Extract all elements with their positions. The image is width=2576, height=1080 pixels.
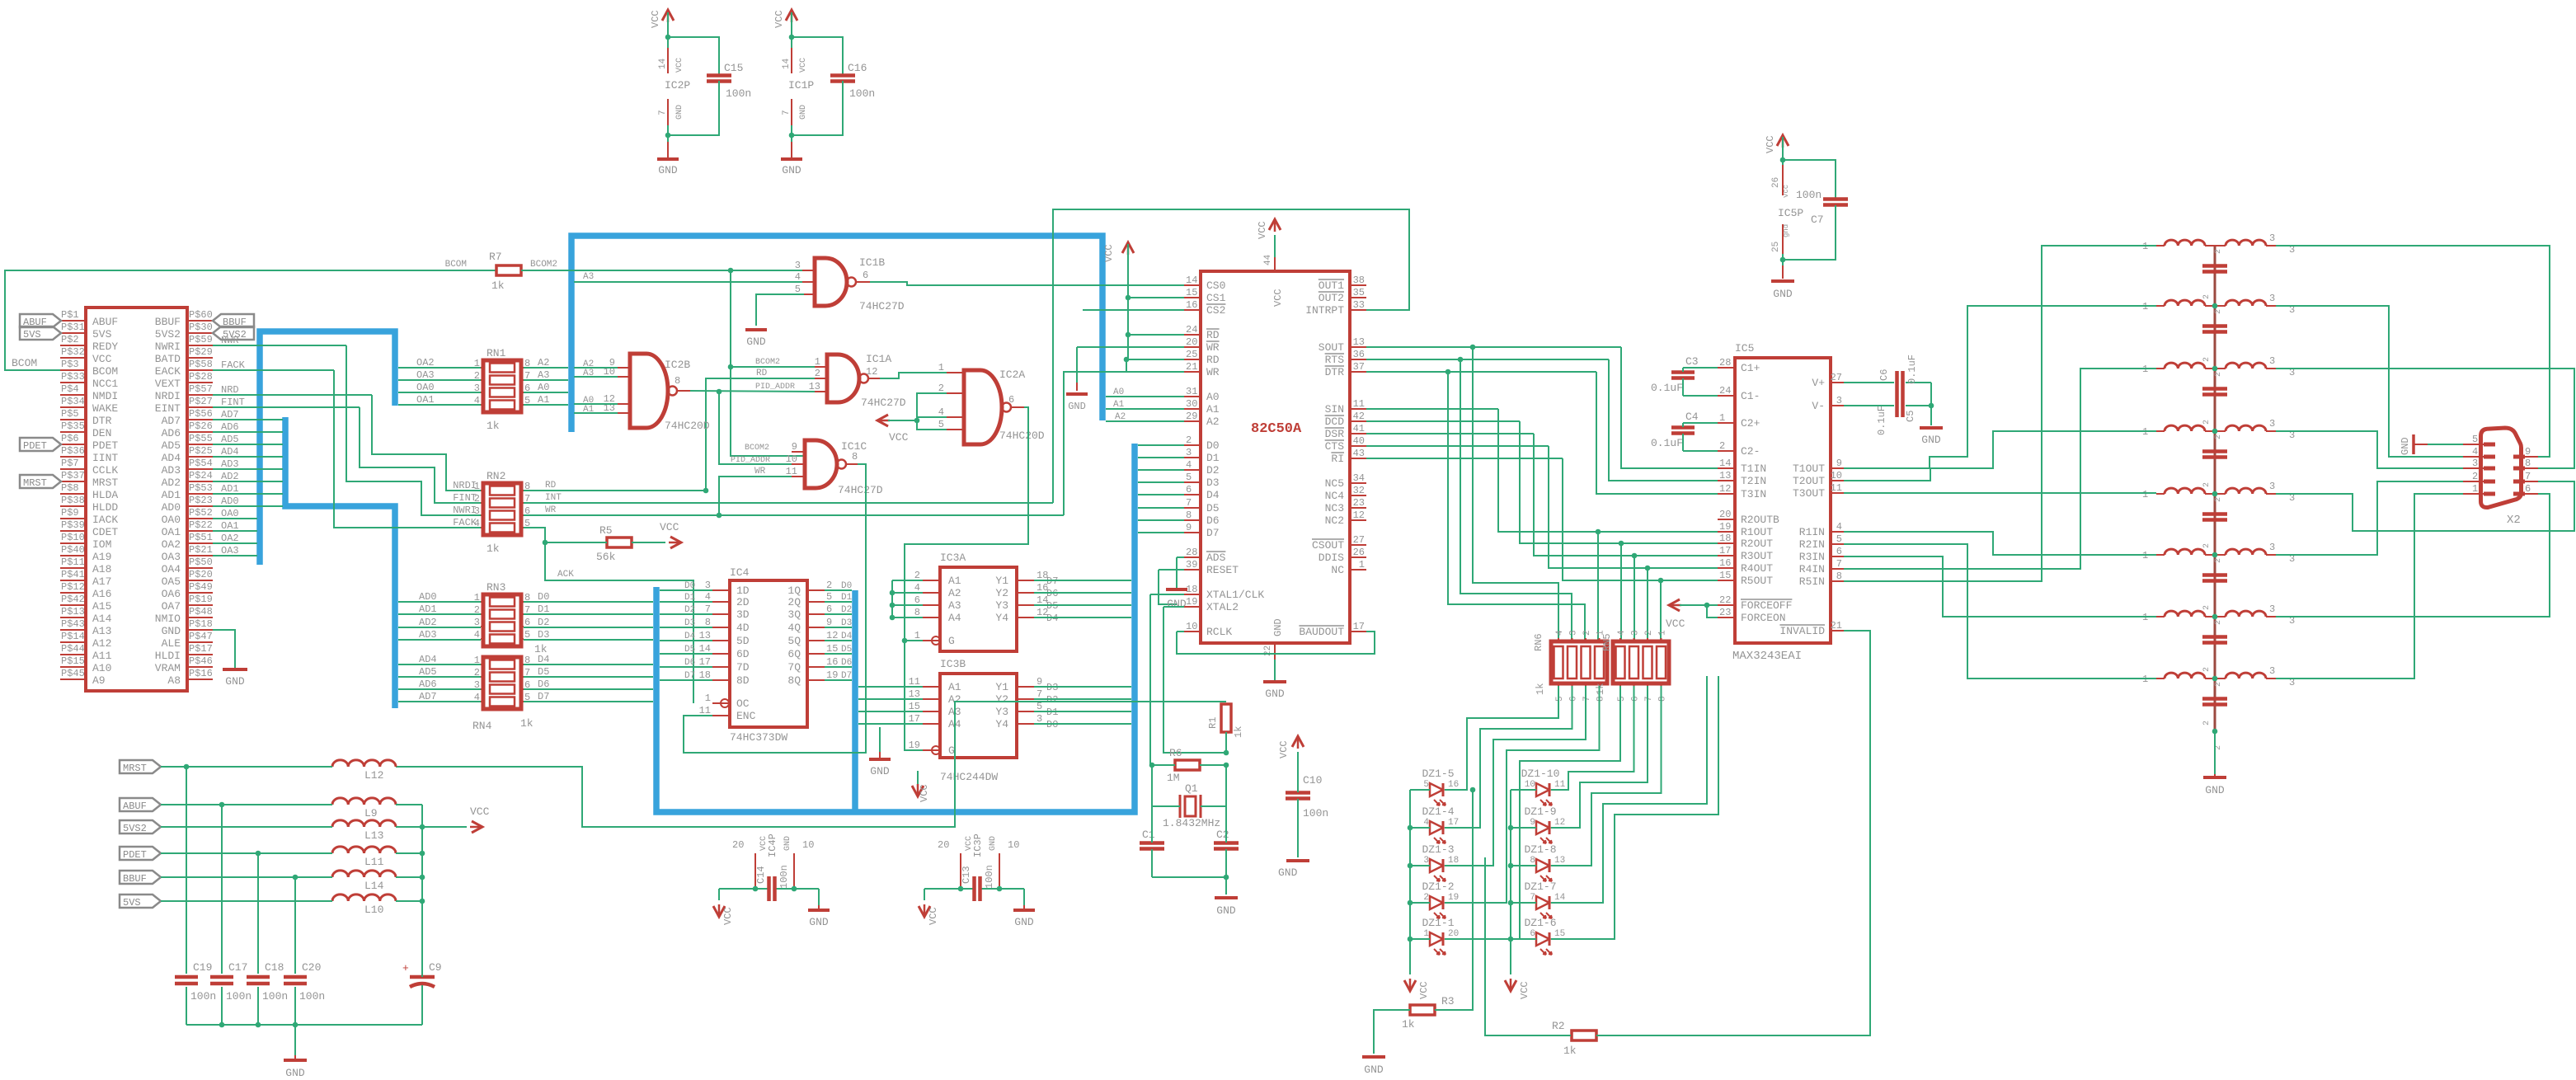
wire row5 to T3OUT xyxy=(1844,492,2156,494)
svg-text:EACK: EACK xyxy=(155,365,181,378)
svg-text:BCOM: BCOM xyxy=(92,365,118,378)
svg-text:DZ1-8: DZ1-8 xyxy=(1524,843,1556,856)
svg-text:17: 17 xyxy=(1448,818,1459,828)
wire IC3A Y2 to bus xyxy=(1034,592,1131,594)
wire/net OA0 xyxy=(213,518,257,519)
vcc arrow (IC3 area) xyxy=(912,786,924,796)
svg-text:8: 8 xyxy=(914,607,920,618)
svg-text:VCC: VCC xyxy=(1103,244,1115,262)
svg-text:Y2: Y2 xyxy=(995,587,1008,599)
svg-text:AD4: AD4 xyxy=(162,452,181,464)
svg-text:20: 20 xyxy=(938,839,949,851)
wire GND 82C50 xyxy=(1274,660,1276,682)
junction filter row 5 xyxy=(2212,491,2218,497)
svg-text:37: 37 xyxy=(1353,361,1365,373)
svg-text:AD5: AD5 xyxy=(419,666,437,678)
svg-text:D6: D6 xyxy=(538,679,549,690)
svg-text:VRAM: VRAM xyxy=(155,662,181,674)
svg-text:C1+: C1+ xyxy=(1741,362,1760,374)
wire IC4 Q7 to bus xyxy=(825,666,852,668)
svg-text:A0: A0 xyxy=(1206,391,1220,403)
wire C20 column xyxy=(294,877,296,1025)
junction filter row 6 xyxy=(2212,552,2218,558)
svg-text:3: 3 xyxy=(474,617,480,628)
svg-text:OA2: OA2 xyxy=(416,357,435,369)
svg-text:DTR: DTR xyxy=(1325,366,1345,378)
svg-text:ABUF: ABUF xyxy=(92,316,118,328)
wire D0 bus to IC4 xyxy=(660,589,712,591)
junction filter row 8 xyxy=(2212,676,2218,682)
wire MRST long line xyxy=(396,702,1226,827)
wire row2 to T1OUT xyxy=(1844,306,2156,468)
svg-text:9: 9 xyxy=(792,441,797,453)
svg-text:Y1: Y1 xyxy=(995,681,1008,693)
svg-text:2: 2 xyxy=(2202,605,2212,610)
svg-text:D4: D4 xyxy=(1206,489,1220,501)
svg-text:P$8: P$8 xyxy=(61,482,79,494)
svg-text:OA3: OA3 xyxy=(221,545,239,556)
svg-text:P$40: P$40 xyxy=(61,544,85,556)
svg-text:2: 2 xyxy=(2214,372,2223,377)
svg-text:7: 7 xyxy=(1037,688,1042,700)
svg-text:15: 15 xyxy=(1186,287,1197,298)
svg-text:IC2A: IC2A xyxy=(999,369,1025,381)
filter capacitor row 8 xyxy=(2202,697,2227,701)
svg-text:4Q: 4Q xyxy=(787,622,801,634)
svg-text:2: 2 xyxy=(2202,482,2212,487)
svg-text:IC5: IC5 xyxy=(1735,342,1754,355)
svg-text:3: 3 xyxy=(1423,856,1429,866)
wire GND drop xyxy=(294,1025,296,1055)
wire L10 out xyxy=(396,900,422,902)
vcc arrow (C10) xyxy=(1292,736,1304,747)
svg-text:CTS: CTS xyxy=(1325,440,1345,453)
capacitor C20 xyxy=(284,974,307,987)
svg-text:WR: WR xyxy=(545,505,557,515)
junction filter row 3 xyxy=(2212,366,2218,372)
wire/net AD5 xyxy=(213,444,283,445)
svg-text:1k: 1k xyxy=(1535,683,1546,695)
svg-text:R1IN: R1IN xyxy=(1799,526,1825,538)
wire OA0 bus to RN1 xyxy=(398,392,481,393)
wire FACK to RN2 xyxy=(223,369,334,371)
svg-text:39: 39 xyxy=(1186,559,1197,571)
svg-text:74HC373DW: 74HC373DW xyxy=(730,731,787,744)
svg-text:14: 14 xyxy=(782,58,792,69)
svg-text:V-: V- xyxy=(1812,400,1825,412)
svg-text:A12: A12 xyxy=(92,637,111,650)
svg-text:3: 3 xyxy=(2269,481,2275,492)
wire L11 out xyxy=(396,852,422,854)
svg-text:5: 5 xyxy=(1555,696,1565,702)
wire AD0 bus to RN3/RN4 xyxy=(398,601,481,603)
svg-text:P$53: P$53 xyxy=(189,482,213,494)
svg-text:NC3: NC3 xyxy=(1325,502,1344,514)
svg-text:ACK: ACK xyxy=(557,570,574,580)
svg-text:T1IN: T1IN xyxy=(1741,463,1766,475)
svg-text:3: 3 xyxy=(795,260,801,271)
svg-text:2D: 2D xyxy=(736,596,750,608)
wire IC4 Q2 to bus xyxy=(825,601,852,603)
capacitor C1 xyxy=(1140,841,1164,845)
svg-text:P$18: P$18 xyxy=(189,618,213,630)
wire C17 column xyxy=(221,805,223,1025)
svg-text:30: 30 xyxy=(1186,398,1197,410)
svg-text:P$42: P$42 xyxy=(61,594,85,605)
svg-text:VCC: VCC xyxy=(799,58,808,73)
wire DZ1-10 to RN xyxy=(1551,686,1634,790)
svg-text:7D: 7D xyxy=(736,661,750,674)
svg-text:22: 22 xyxy=(1719,594,1731,606)
svg-text:6: 6 xyxy=(2525,483,2531,495)
resistor R3 xyxy=(1410,1005,1435,1015)
svg-text:P$41: P$41 xyxy=(61,569,85,580)
svg-text:0.1uF: 0.1uF xyxy=(1876,406,1887,435)
svg-text:V+: V+ xyxy=(1812,377,1825,389)
svg-text:100n: 100n xyxy=(849,87,875,100)
wire DZ1-8 to RN xyxy=(1551,686,1662,866)
wire C1/C2 to GND xyxy=(1151,806,1153,843)
svg-text:2Q: 2Q xyxy=(787,596,801,608)
svg-text:A2: A2 xyxy=(948,587,961,599)
xref flag MRST (bottom) xyxy=(120,760,161,773)
power pins IC1P + capacitor C16 xyxy=(786,10,797,21)
svg-text:CS2: CS2 xyxy=(1206,304,1225,317)
svg-text:DZ1-5: DZ1-5 xyxy=(1422,768,1454,780)
inductor L13 xyxy=(332,820,396,827)
xref flag BBUF xyxy=(213,314,254,327)
svg-text:GND: GND xyxy=(2400,437,2411,455)
wire DZ1-9 to RN xyxy=(1551,686,1648,828)
svg-text:C1-: C1- xyxy=(1741,390,1760,402)
svg-text:D6: D6 xyxy=(841,658,852,668)
svg-text:P$31: P$31 xyxy=(61,322,85,333)
junction filter bottom xyxy=(2212,729,2218,735)
svg-text:26: 26 xyxy=(1353,547,1365,558)
svg-text:3D: 3D xyxy=(736,608,750,621)
svg-text:5: 5 xyxy=(1836,533,1842,545)
svg-text:BBUF: BBUF xyxy=(155,316,181,328)
svg-text:P$25: P$25 xyxy=(189,445,213,457)
wire BBUF row xyxy=(161,876,332,878)
svg-text:5: 5 xyxy=(938,419,944,430)
svg-text:IC2B: IC2B xyxy=(665,359,690,371)
svg-text:P$50: P$50 xyxy=(189,556,213,568)
svg-text:AD1: AD1 xyxy=(162,489,181,501)
wire A2 RN1 to bus xyxy=(524,367,568,369)
svg-text:7: 7 xyxy=(1582,696,1592,702)
svg-text:C2+: C2+ xyxy=(1741,417,1760,430)
svg-text:16: 16 xyxy=(1186,299,1197,311)
svg-text:C9: C9 xyxy=(429,961,442,974)
buffer IC3B (74HC244) xyxy=(940,674,1017,758)
svg-text:NMDI: NMDI xyxy=(92,390,118,402)
svg-text:20: 20 xyxy=(732,839,744,851)
wire C19 column xyxy=(186,767,187,1025)
svg-text:VCC: VCC xyxy=(470,805,490,818)
svg-text:13: 13 xyxy=(699,630,711,641)
wire/net OA2 xyxy=(213,542,257,544)
wire L14 out xyxy=(396,876,422,878)
svg-text:2: 2 xyxy=(815,368,820,379)
svg-text:A3: A3 xyxy=(583,369,594,378)
wire DZ1-7 up xyxy=(1551,676,1707,903)
wire BAUDOUT to RCLK xyxy=(1177,631,1184,632)
svg-text:12: 12 xyxy=(866,366,877,378)
svg-text:1k: 1k xyxy=(1563,1045,1577,1057)
svg-text:D0: D0 xyxy=(1206,439,1220,452)
wire D4 bus to IC4 xyxy=(660,640,712,641)
svg-text:D1: D1 xyxy=(1206,452,1220,464)
wire IC2A out to IC3 G xyxy=(905,407,1028,641)
svg-text:C14: C14 xyxy=(755,866,767,884)
svg-text:A4: A4 xyxy=(948,612,961,624)
svg-text:GND: GND xyxy=(989,836,998,851)
wire IC3B Y3 to bus xyxy=(1034,711,1131,712)
wire row6 to X2 pin2 xyxy=(2276,481,2463,555)
inductor L11 xyxy=(332,847,396,853)
diode DZ1-2 xyxy=(1430,896,1443,909)
svg-text:AD0: AD0 xyxy=(162,501,181,514)
svg-text:3: 3 xyxy=(2472,458,2478,469)
svg-text:R2OUTB: R2OUTB xyxy=(1741,514,1779,526)
svg-text:T2IN: T2IN xyxy=(1741,475,1766,487)
wire OA1 bus to RN1 xyxy=(398,404,481,406)
svg-text:100n: 100n xyxy=(1796,189,1822,201)
svg-text:5: 5 xyxy=(1423,780,1429,790)
svg-text:D3: D3 xyxy=(538,629,549,641)
svg-text:R2IN: R2IN xyxy=(1799,538,1825,551)
wire R3OUT branch to RN5 xyxy=(1634,556,1635,642)
svg-text:RD: RD xyxy=(1206,354,1220,366)
wire D1 bus to uart xyxy=(1138,457,1184,458)
capacitor C6 xyxy=(1844,382,1894,383)
svg-text:RN2: RN2 xyxy=(487,470,505,482)
svg-text:WAKE: WAKE xyxy=(92,402,118,415)
svg-text:42: 42 xyxy=(1353,411,1365,422)
capacitor C17 xyxy=(210,974,233,987)
svg-text:GND: GND xyxy=(870,765,890,777)
svg-text:A1: A1 xyxy=(1113,400,1125,410)
wire INT riser / INTRPT loop xyxy=(1053,209,1409,503)
svg-text:3: 3 xyxy=(705,580,711,591)
svg-text:AD5: AD5 xyxy=(162,439,181,452)
svg-text:D2: D2 xyxy=(684,605,695,615)
junction filter row 2 xyxy=(2212,303,2218,309)
svg-text:4D: 4D xyxy=(736,622,750,634)
svg-text:20: 20 xyxy=(1186,336,1197,348)
svg-text:16: 16 xyxy=(826,656,838,668)
svg-text:Y2: Y2 xyxy=(995,693,1008,706)
svg-text:RTS: RTS xyxy=(1325,354,1345,366)
svg-text:INT: INT xyxy=(545,493,562,503)
svg-text:MRST: MRST xyxy=(23,477,47,489)
svg-text:1k: 1k xyxy=(487,542,500,555)
svg-text:1Q: 1Q xyxy=(787,585,801,597)
svg-text:DCD: DCD xyxy=(1325,416,1345,428)
svg-text:6: 6 xyxy=(1836,546,1842,557)
wire D5 bus to IC4 xyxy=(660,653,712,655)
filter capacitor row 5 xyxy=(2202,512,2227,516)
wire/net OA1 xyxy=(213,530,257,532)
xref flag MRST xyxy=(20,475,61,488)
svg-text:SIN: SIN xyxy=(1325,403,1344,416)
ground (IC1B) xyxy=(745,328,767,331)
wire R1 bottom xyxy=(1225,732,1227,753)
wire/net AD4 xyxy=(213,456,283,458)
svg-text:12: 12 xyxy=(1554,818,1565,828)
filter L/C row 7 xyxy=(2156,616,2165,617)
svg-text:D5: D5 xyxy=(538,666,549,678)
wire VCC 82C50 xyxy=(1274,235,1276,257)
svg-text:RCLK: RCLK xyxy=(1206,626,1232,638)
svg-text:3: 3 xyxy=(1631,630,1641,636)
svg-text:GND: GND xyxy=(675,105,684,120)
svg-text:10: 10 xyxy=(1186,621,1197,632)
svg-text:2: 2 xyxy=(2202,294,2212,299)
svg-text:1M: 1M xyxy=(1167,772,1180,784)
svg-text:56k: 56k xyxy=(596,551,616,563)
wire IC4 Q6 to bus xyxy=(825,653,852,655)
svg-text:L12: L12 xyxy=(364,769,383,782)
wire row4 to T2OUT xyxy=(1844,431,2156,481)
svg-text:GND: GND xyxy=(809,916,829,928)
svg-text:43: 43 xyxy=(1353,448,1365,459)
svg-text:WR: WR xyxy=(1206,366,1220,378)
xref flag 5VS2 xyxy=(213,326,254,340)
wire AD1 bus to RN3/RN4 xyxy=(398,613,481,615)
ground (C10) xyxy=(1286,859,1309,862)
wire bottom rail xyxy=(186,1024,422,1026)
filter capacitor row 7 xyxy=(2202,635,2227,639)
svg-text:L13: L13 xyxy=(364,829,383,842)
svg-text:5: 5 xyxy=(524,629,530,641)
svg-text:FACK: FACK xyxy=(221,359,246,371)
svg-text:74HC20D: 74HC20D xyxy=(665,420,710,432)
resistor network RN4 xyxy=(483,657,521,709)
svg-text:VCC: VCC xyxy=(1272,289,1284,307)
svg-text:P$6: P$6 xyxy=(61,433,79,444)
svg-text:AD4: AD4 xyxy=(419,654,437,665)
svg-text:P$24: P$24 xyxy=(189,470,213,481)
wire AD5 bus to RN3/RN4 xyxy=(398,676,481,678)
svg-text:OA0: OA0 xyxy=(162,514,181,526)
svg-text:100n: 100n xyxy=(226,990,251,1003)
svg-text:P$60: P$60 xyxy=(189,309,213,321)
svg-text:DZ1-1: DZ1-1 xyxy=(1422,917,1454,929)
svg-text:CDET: CDET xyxy=(92,526,118,538)
svg-text:C4: C4 xyxy=(1685,411,1699,423)
svg-text:13: 13 xyxy=(1353,336,1365,348)
xref flag ABUF (bottom) xyxy=(120,798,161,811)
wire OA3 bus to RN1 xyxy=(398,379,481,381)
wire D3 bus to IC4 xyxy=(660,627,712,628)
capacitor C18 xyxy=(247,974,270,987)
wire A3 RN1 to bus xyxy=(524,379,568,381)
wire INTRPT xyxy=(1366,309,1409,311)
ground (crystal) xyxy=(1215,896,1238,899)
svg-text:17: 17 xyxy=(699,656,711,668)
svg-text:P$58: P$58 xyxy=(189,359,213,370)
svg-text:P$4: P$4 xyxy=(61,383,79,395)
svg-text:MAX3243EAI: MAX3243EAI xyxy=(1732,650,1802,663)
buffer IC3A (74HC244) xyxy=(940,567,1017,651)
ground (ADS) xyxy=(1166,588,1187,591)
svg-text:23: 23 xyxy=(1353,497,1365,509)
wire IC3A Y4 to bus xyxy=(1034,617,1131,618)
vcc arrow (82C50) xyxy=(1269,219,1281,230)
svg-text:AD0: AD0 xyxy=(221,495,239,507)
wire D7 bus to uart xyxy=(1138,532,1184,533)
svg-text:19: 19 xyxy=(1448,893,1459,903)
wire D2 bus to IC4 xyxy=(660,613,712,615)
svg-text:P$1: P$1 xyxy=(61,309,79,321)
svg-text:31: 31 xyxy=(1186,386,1197,397)
svg-text:DZ1-3: DZ1-3 xyxy=(1422,843,1454,856)
svg-text:14: 14 xyxy=(1554,893,1566,903)
svg-text:VCC: VCC xyxy=(650,10,661,28)
svg-text:1: 1 xyxy=(2472,483,2478,495)
svg-text:OA3: OA3 xyxy=(416,369,435,381)
svg-text:2: 2 xyxy=(2214,682,2223,687)
svg-text:Y1: Y1 xyxy=(995,575,1008,587)
svg-text:D2: D2 xyxy=(841,605,852,615)
svg-text:BBUF: BBUF xyxy=(123,873,147,885)
wire IC1A out to IC2A pin2 xyxy=(880,373,947,378)
svg-text:INTRPT: INTRPT xyxy=(1305,304,1344,317)
svg-text:1k: 1k xyxy=(1233,726,1244,738)
wire D0 bus to uart xyxy=(1138,444,1184,446)
svg-text:8: 8 xyxy=(705,617,711,628)
svg-text:9: 9 xyxy=(1186,522,1192,533)
svg-text:P$35: P$35 xyxy=(61,420,85,432)
svg-text:HLDD: HLDD xyxy=(92,501,118,514)
wire row3 to R4IN xyxy=(1844,369,2156,569)
svg-text:IINT: IINT xyxy=(92,452,118,464)
svg-text:D1: D1 xyxy=(538,603,549,615)
svg-text:A1: A1 xyxy=(538,394,549,406)
svg-text:R5: R5 xyxy=(599,524,613,537)
svg-text:1k: 1k xyxy=(487,420,500,432)
svg-text:11: 11 xyxy=(1554,780,1566,790)
wire RD riser to IC1A xyxy=(706,378,815,491)
svg-text:7: 7 xyxy=(1530,893,1535,903)
wire IC4 Q1 to bus xyxy=(825,589,852,591)
nand gate IC2A (74HC20) xyxy=(964,370,1002,444)
svg-text:A3: A3 xyxy=(538,369,549,381)
wire FINT to RN2 xyxy=(278,406,360,408)
svg-text:P$5: P$5 xyxy=(61,408,79,420)
svg-text:R1: R1 xyxy=(1207,717,1219,729)
svg-text:7: 7 xyxy=(1644,696,1654,702)
nor gate IC1B xyxy=(815,258,847,306)
wire/net NRD xyxy=(213,394,306,396)
svg-text:OUT2: OUT2 xyxy=(1319,292,1344,304)
svg-text:13: 13 xyxy=(1719,470,1731,481)
svg-text:1.8432MHz: 1.8432MHz xyxy=(1163,817,1220,829)
svg-text:D5: D5 xyxy=(684,645,695,655)
svg-text:A1: A1 xyxy=(1206,403,1220,416)
svg-text:D3: D3 xyxy=(1206,477,1220,489)
svg-text:5VS: 5VS xyxy=(23,329,41,340)
filter L/C row 2 xyxy=(2156,305,2165,307)
svg-text:1: 1 xyxy=(1423,929,1429,939)
svg-text:CS1: CS1 xyxy=(1206,292,1226,304)
svg-text:25: 25 xyxy=(1771,242,1781,252)
svg-text:MRST: MRST xyxy=(92,477,118,489)
svg-text:OA1: OA1 xyxy=(162,526,181,538)
inductor L10 xyxy=(332,895,396,901)
